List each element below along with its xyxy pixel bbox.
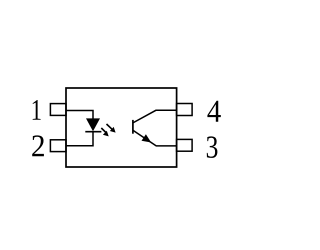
pin 3 pad [177, 139, 193, 151]
optocoupler package outline U1 [66, 88, 177, 167]
pin label 4 [207, 101, 220, 122]
pin 2 pad [50, 140, 66, 152]
phototransistor Q1 emitter arrow [142, 134, 152, 142]
pin label 3 [207, 136, 218, 158]
LED D1 cathode bar [85, 131, 101, 133]
pin 4 pad [177, 104, 193, 116]
pin 1 pad [50, 104, 66, 116]
LED D1 triangle [86, 118, 100, 131]
pin label 2 [32, 135, 44, 156]
phototransistor Q1 collector wire to pin 4 [133, 110, 177, 123]
phototransistor Q1 base bar [132, 120, 134, 134]
wire cathode: LED to pin 2 [66, 132, 93, 146]
pin label 1 [33, 100, 41, 120]
light arrow lower [101, 128, 108, 136]
light arrow upper [107, 124, 116, 133]
wire anode: pin 1 to LED [66, 111, 93, 119]
phototransistor Q1 emitter wire to pin 3 [133, 130, 177, 146]
